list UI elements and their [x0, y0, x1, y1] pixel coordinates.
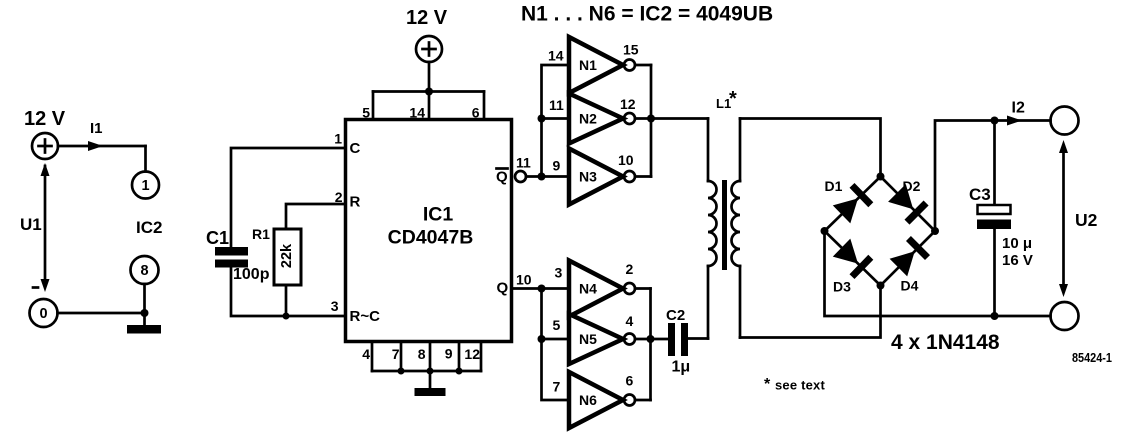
- junction dot: [647, 115, 655, 123]
- svg-text:10: 10: [618, 152, 634, 168]
- svg-text:N3: N3: [579, 169, 597, 185]
- wire to N2 input: [542, 117, 570, 120]
- inverter N2: [569, 94, 635, 144]
- wire bridge minus to bottom rail: [825, 231, 1051, 316]
- node top (AC): [877, 173, 885, 181]
- svg-text:C3: C3: [969, 185, 991, 204]
- node right (plus): [931, 227, 939, 235]
- svg-text:R: R: [350, 194, 361, 211]
- wire secondary top to bridge: [740, 119, 881, 177]
- wire 0 to ground node: [58, 312, 145, 315]
- voltage arrow U1: [33, 163, 50, 292]
- svg-text:N1: N1: [579, 57, 597, 73]
- input bus N4-N6: [542, 289, 570, 401]
- resistor R1: [274, 229, 301, 285]
- svg-text:7: 7: [553, 379, 561, 395]
- wire to C3: [993, 121, 996, 206]
- bottom bracket wire: [372, 370, 481, 373]
- diode D2: [888, 184, 929, 225]
- ground (IC1): [415, 388, 446, 396]
- svg-text:11: 11: [516, 155, 531, 171]
- top bracket wire: [373, 90, 484, 93]
- svg-text:10: 10: [516, 272, 532, 288]
- svg-text:CD4047B: CD4047B: [388, 227, 474, 249]
- svg-text:N2: N2: [579, 111, 597, 127]
- diode D4: [890, 236, 930, 276]
- wire pin1 C to C1: [231, 148, 345, 247]
- wire bus to C2: [651, 338, 669, 341]
- wire C1 bottom to pin3: [231, 268, 345, 317]
- svg-text:0: 0: [39, 306, 47, 322]
- output wires N4-N6: [635, 289, 651, 401]
- source circle + (left 12V supply): [32, 133, 58, 159]
- IC2 pin circle 8: [131, 256, 159, 284]
- node left (minus): [821, 227, 829, 235]
- junction dots: [398, 368, 463, 375]
- wire Q to bus: [512, 287, 542, 290]
- wire bridge plus to top rail: [935, 121, 1051, 232]
- inverter N6: [569, 372, 635, 428]
- wire R1 bottom: [285, 285, 288, 316]
- transformer L1 primary: [708, 119, 717, 339]
- svg-text:D4: D4: [901, 278, 919, 294]
- node bottom (AC): [877, 282, 885, 290]
- inverter N3: [569, 149, 635, 205]
- svg-text:16 V: 16 V: [1002, 252, 1033, 269]
- svg-text:6: 6: [626, 373, 634, 389]
- wire C2 to primary: [688, 337, 708, 340]
- junction dot: [991, 312, 999, 320]
- input bus N1-N3: [542, 65, 570, 177]
- svg-text:U2: U2: [1075, 210, 1098, 230]
- wire down to IC2 pin1: [144, 146, 147, 172]
- capacitor C3 (polarized): [977, 205, 1011, 229]
- label L1*: [716, 88, 737, 111]
- junction dot: [647, 335, 655, 343]
- diode D1: [833, 183, 874, 223]
- svg-text:7: 7: [392, 346, 400, 362]
- transformer L1 secondary: [732, 119, 741, 338]
- svg-text:15: 15: [623, 42, 639, 58]
- wire pin2 R to R1: [286, 204, 345, 229]
- ground (IC2): [127, 325, 161, 334]
- bottom pin stubs 4,7,8,9,12: [372, 342, 481, 371]
- pin Q-bar label: [496, 169, 508, 186]
- wire to ground: [429, 371, 432, 388]
- junction dot: [538, 173, 546, 181]
- svg-text:C1: C1: [206, 228, 229, 248]
- top pin stubs 5,14,6: [373, 92, 484, 120]
- transformer core: [722, 180, 727, 270]
- capacitor C2: [668, 323, 688, 356]
- junction dot: [425, 88, 433, 96]
- svg-text:8: 8: [140, 263, 148, 279]
- svg-text:12: 12: [464, 346, 480, 362]
- wire bus to transformer primary top: [651, 117, 708, 120]
- output bus N1-N3: [650, 65, 653, 177]
- diode D3: [833, 239, 874, 279]
- wire to N5 input: [542, 338, 570, 341]
- junction dot: [538, 285, 546, 293]
- source circle + (top 12V supply): [416, 36, 442, 62]
- svg-text:see text: see text: [775, 378, 825, 393]
- output terminal bottom: [1051, 302, 1079, 330]
- wire Qbar to bus: [526, 175, 542, 178]
- svg-text:Q: Q: [497, 280, 509, 297]
- svg-text:10 μ: 10 μ: [1002, 235, 1032, 252]
- svg-text:12 V: 12 V: [406, 7, 448, 29]
- svg-text:1: 1: [141, 178, 149, 194]
- svg-text:IC1: IC1: [423, 204, 454, 226]
- svg-text:12 V: 12 V: [24, 108, 66, 130]
- svg-text:I2: I2: [1012, 100, 1025, 117]
- svg-text:100p: 100p: [233, 266, 270, 283]
- bridge arms: [825, 177, 936, 286]
- junction dot (R1/pin3): [283, 313, 290, 320]
- junction dot: [538, 115, 546, 123]
- svg-text:4: 4: [362, 346, 370, 362]
- svg-text:3: 3: [555, 265, 563, 281]
- output terminal top: [1051, 107, 1079, 135]
- wire I1 with current arrow: [58, 141, 146, 151]
- svg-text:R1: R1: [252, 226, 270, 242]
- svg-text:U1: U1: [20, 215, 42, 234]
- svg-text:N5: N5: [579, 331, 597, 347]
- svg-text:8: 8: [418, 346, 426, 362]
- svg-text:11: 11: [549, 97, 564, 113]
- svg-text:6: 6: [472, 105, 480, 121]
- svg-text:3: 3: [331, 298, 339, 314]
- svg-text:9: 9: [553, 158, 561, 174]
- svg-text:12: 12: [620, 96, 636, 112]
- inverter N5: [569, 314, 635, 364]
- inversion bubble Q-bar: [515, 171, 526, 182]
- svg-text:5: 5: [553, 317, 561, 333]
- svg-text:N1 . . . N6 = IC2 = 4049UB: N1 . . . N6 = IC2 = 4049UB: [521, 3, 773, 26]
- svg-text:I1: I1: [90, 120, 103, 137]
- svg-text:4: 4: [626, 313, 634, 329]
- wire secondary bottom to bridge: [740, 286, 881, 338]
- svg-text:N4: N4: [579, 281, 597, 297]
- svg-text:4 x 1N4148: 4 x 1N4148: [891, 331, 1000, 354]
- terminal circle 0: [30, 299, 58, 327]
- svg-text:22k: 22k: [279, 243, 295, 268]
- svg-text:2: 2: [335, 189, 343, 205]
- wire supply to pin14: [428, 62, 431, 92]
- svg-text:1: 1: [334, 131, 342, 147]
- IC2 pin circle 1: [132, 172, 159, 199]
- junction dot: [538, 335, 546, 343]
- output wires N1-N3: [635, 65, 651, 177]
- svg-text:*: *: [764, 376, 771, 393]
- capacitor C1: [215, 247, 248, 268]
- svg-text:2: 2: [626, 261, 634, 277]
- note see text: [764, 376, 825, 393]
- junction dot: [991, 117, 999, 125]
- junction dot: [141, 309, 149, 317]
- svg-text:14: 14: [548, 48, 564, 64]
- svg-text:*: *: [729, 88, 737, 110]
- svg-text:14: 14: [409, 105, 425, 121]
- svg-text:D1: D1: [825, 178, 843, 194]
- svg-text:C2: C2: [666, 307, 685, 324]
- svg-text:IC2: IC2: [136, 218, 162, 237]
- wire C3 to bottom rail: [993, 229, 996, 316]
- output bus N4-N6: [649, 289, 652, 401]
- svg-text:R~C: R~C: [350, 308, 381, 325]
- wire pin8 to ground: [143, 284, 146, 325]
- svg-text:85424-1: 85424-1: [1072, 350, 1112, 365]
- svg-text:D2: D2: [903, 178, 921, 194]
- IC U1 box (IC1): [346, 120, 512, 342]
- svg-text:5: 5: [362, 105, 370, 121]
- svg-text:9: 9: [445, 346, 453, 362]
- current arrow I2: [1007, 116, 1022, 126]
- wire to N4 input: [542, 287, 570, 290]
- svg-text:Q: Q: [496, 169, 508, 186]
- svg-text:C: C: [350, 140, 361, 157]
- svg-text:D3: D3: [833, 279, 851, 295]
- inverter N1: [569, 37, 635, 93]
- voltage arrow U2: [1059, 140, 1068, 297]
- svg-text:N6: N6: [579, 392, 597, 408]
- wire to N3 input: [542, 175, 570, 178]
- svg-text:1μ: 1μ: [672, 359, 691, 376]
- inverter N4: [569, 261, 635, 317]
